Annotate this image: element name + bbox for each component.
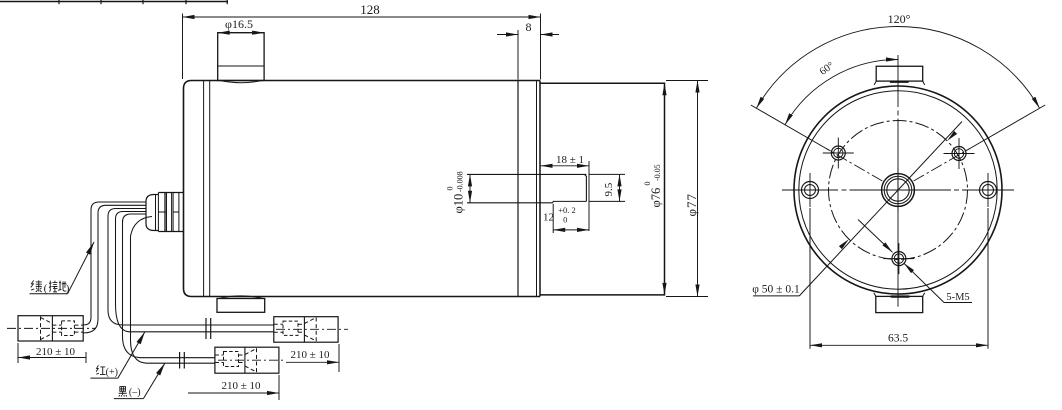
svg-text:(: ( bbox=[44, 283, 48, 295]
svg-text:φ76: φ76 bbox=[649, 188, 663, 208]
svg-text:63.5: 63.5 bbox=[888, 333, 908, 345]
svg-text:18 ± 1: 18 ± 1 bbox=[556, 154, 584, 166]
svg-text:0: 0 bbox=[563, 214, 567, 224]
svg-text:12: 12 bbox=[543, 212, 554, 224]
svg-text:128: 128 bbox=[360, 2, 380, 17]
svg-text:9.5: 9.5 bbox=[603, 182, 615, 196]
svg-text:-0.05: -0.05 bbox=[653, 164, 662, 181]
svg-text:φ 50 ± 0.1: φ 50 ± 0.1 bbox=[752, 284, 800, 296]
svg-text:60°: 60° bbox=[818, 60, 836, 77]
svg-text:(–): (–) bbox=[129, 387, 141, 398]
svg-text:φ10: φ10 bbox=[452, 194, 466, 214]
svg-text:(+): (+) bbox=[106, 367, 118, 378]
svg-text:210 ± 10: 210 ± 10 bbox=[290, 349, 330, 361]
svg-text:0: 0 bbox=[643, 182, 652, 186]
svg-text:φ16.5: φ16.5 bbox=[225, 17, 253, 31]
svg-text:5-M5: 5-M5 bbox=[946, 292, 969, 303]
svg-text:210 ± 10: 210 ± 10 bbox=[36, 346, 76, 358]
svg-text:φ77: φ77 bbox=[684, 193, 699, 217]
svg-text:0: 0 bbox=[446, 187, 455, 191]
svg-text:-0.008: -0.008 bbox=[456, 171, 465, 192]
svg-text:120°: 120° bbox=[888, 12, 911, 26]
svg-text:210 ± 10: 210 ± 10 bbox=[221, 380, 261, 392]
svg-text:8: 8 bbox=[526, 20, 532, 34]
